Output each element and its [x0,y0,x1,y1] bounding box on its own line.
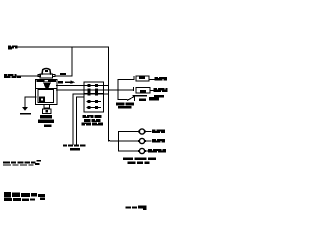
TB row 5 terminals [86,106,101,109]
wire lamp feed elbow [109,139,119,141]
wire TB row3 right stub [104,93,109,95]
bus vertical lamps [118,132,120,152]
TB caption text [81,115,103,125]
connector stub label [63,144,86,150]
bus vertical to switches [117,79,119,99]
switch S1 row [118,76,154,81]
wire compressor to TB row1 [57,85,85,87]
note text bottom left [3,160,41,166]
value label on wire [60,73,66,75]
label S3 [116,97,159,108]
wire compressor to TB row2 [57,89,85,91]
label DS1 [152,130,165,133]
caption lamps [123,158,156,164]
wire to relay cap left [17,75,40,77]
wire drop to lamp feed [108,47,110,141]
compressor U1 body [36,80,58,109]
wire TB row2 feed to switches [104,89,134,91]
switch S3 row [118,96,146,101]
label DS2 [152,139,165,142]
wire TB left elbow 2 down [77,97,85,145]
TB row 1 terminals [84,84,104,87]
part number bottom right [125,206,146,210]
arrow plug direction [58,80,75,84]
node L2 label [4,74,21,78]
relay R1 cap [38,69,55,79]
lamp DS3 row [119,148,149,153]
label S1 [155,77,168,81]
notes block bottom left [4,192,45,201]
wire supply line top [17,46,109,48]
overload OL1 below compressor [38,109,54,127]
lamp DS1 row [119,129,152,134]
terminal board TB1 [84,82,104,112]
wire drop to relay [71,47,73,76]
TB row 2 terminals [84,89,104,92]
wire relay cap to drop [55,75,72,77]
switch S2 row [134,87,154,93]
label DS3 [148,149,166,153]
wire TB row1 to drop [104,85,109,87]
wire to ground [25,97,36,107]
label S2 [133,88,168,98]
ground chassis [20,107,31,115]
lamp DS2 row [119,138,152,143]
wire TB row3 left elbow down [73,94,84,145]
TB row 4 terminals [86,100,101,103]
TB row 3 terminals [84,92,104,95]
node L1 supply label [8,46,18,50]
